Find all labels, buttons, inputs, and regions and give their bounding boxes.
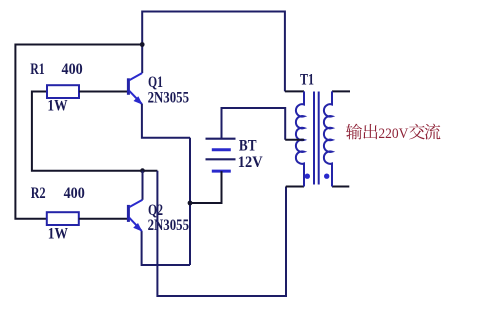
- svg-text:400: 400: [64, 185, 85, 202]
- transistor Q2 base bar: [127, 205, 130, 222]
- label char 交 (AC): [409, 124, 425, 140]
- node C: junction dot battery negative / emitter rail: [188, 201, 193, 206]
- node B: junction dot on Q2 collector line (feedback to R1): [140, 168, 145, 173]
- wire: Q2 emitter down to emitter rail: [142, 231, 190, 265]
- wire: secondary bottom output stub: [332, 186, 349, 188]
- wire: Q1 emitter down to emitter rail: [142, 104, 190, 138]
- svg-text:400: 400: [62, 61, 83, 78]
- polarity dot (primary): [305, 174, 310, 179]
- transistor Q2 collector lead: [129, 200, 143, 207]
- wire: secondary top output stub: [332, 90, 350, 92]
- wire: top rail from Q1 collector to transformer primary top: [142, 12, 285, 92]
- label char 出: [363, 124, 377, 139]
- transistor Q1 base bar: [127, 78, 130, 95]
- label char 输 (output): [346, 124, 362, 140]
- battery BT plate 4 (short, negative): [212, 170, 231, 173]
- label: output 220V AC (Chinese): [346, 124, 440, 142]
- wire: R2 to Q2 base: [79, 218, 128, 220]
- svg-text:12V: 12V: [238, 154, 263, 171]
- transistor Q1 collector lead: [129, 73, 142, 80]
- transformer core line 2: [318, 92, 320, 185]
- transformer T1 primary winding (left, centre-tapped): [296, 91, 304, 186]
- transistor Q2 emitter lead: [129, 217, 142, 230]
- node A: junction dot on Q1 collector (feedback to R2): [140, 42, 145, 47]
- svg-text:T1: T1: [300, 72, 314, 89]
- resistor R1: [47, 85, 79, 98]
- svg-text:2N3055: 2N3055: [148, 217, 189, 234]
- wire: feedback loop from Q2 collector junction left and up to R1: [32, 92, 157, 171]
- polarity dot (secondary): [324, 174, 329, 179]
- wire: primary bottom terminal lead: [286, 186, 304, 188]
- svg-text:2N3055: 2N3055: [148, 89, 189, 106]
- transformer core line 1: [313, 92, 315, 185]
- label char 流: [425, 124, 441, 140]
- svg-text:R2: R2: [31, 185, 46, 202]
- wire: centre tap lead: [285, 139, 304, 141]
- wire: battery negative to common emitter rail: [190, 171, 222, 203]
- svg-text:R1: R1: [30, 61, 45, 78]
- svg-text:Q1: Q1: [148, 74, 163, 91]
- transistor Q1 emitter lead: [129, 91, 142, 104]
- svg-text:1W: 1W: [48, 226, 68, 243]
- battery BT positive wire to transformer centre tap: [222, 108, 286, 140]
- transistor Q1 emitter arrow: [134, 96, 143, 105]
- resistor R2: [47, 212, 79, 225]
- wire: Q2 collector branch down to transformer primary bottom: [157, 171, 286, 296]
- battery BT plate 3 (long): [206, 158, 236, 160]
- transistor Q2 emitter arrow: [133, 223, 142, 232]
- wire: feedback loop from Q1 collector down left side to R2: [15, 45, 142, 219]
- wire: R1 to Q1 base: [79, 91, 127, 93]
- battery BT plate 1 (long, positive): [206, 138, 236, 140]
- wire: Q2 collector up to feedback junction: [142, 171, 144, 200]
- svg-text:220V: 220V: [378, 126, 408, 142]
- wire: common emitter rail (vertical): [189, 138, 191, 265]
- transformer T1 secondary winding (right): [324, 91, 332, 186]
- wire: primary top terminal lead: [285, 90, 304, 92]
- svg-text:1W: 1W: [47, 98, 67, 115]
- svg-text:BT: BT: [239, 138, 257, 155]
- battery BT plate 2 (short): [212, 148, 231, 151]
